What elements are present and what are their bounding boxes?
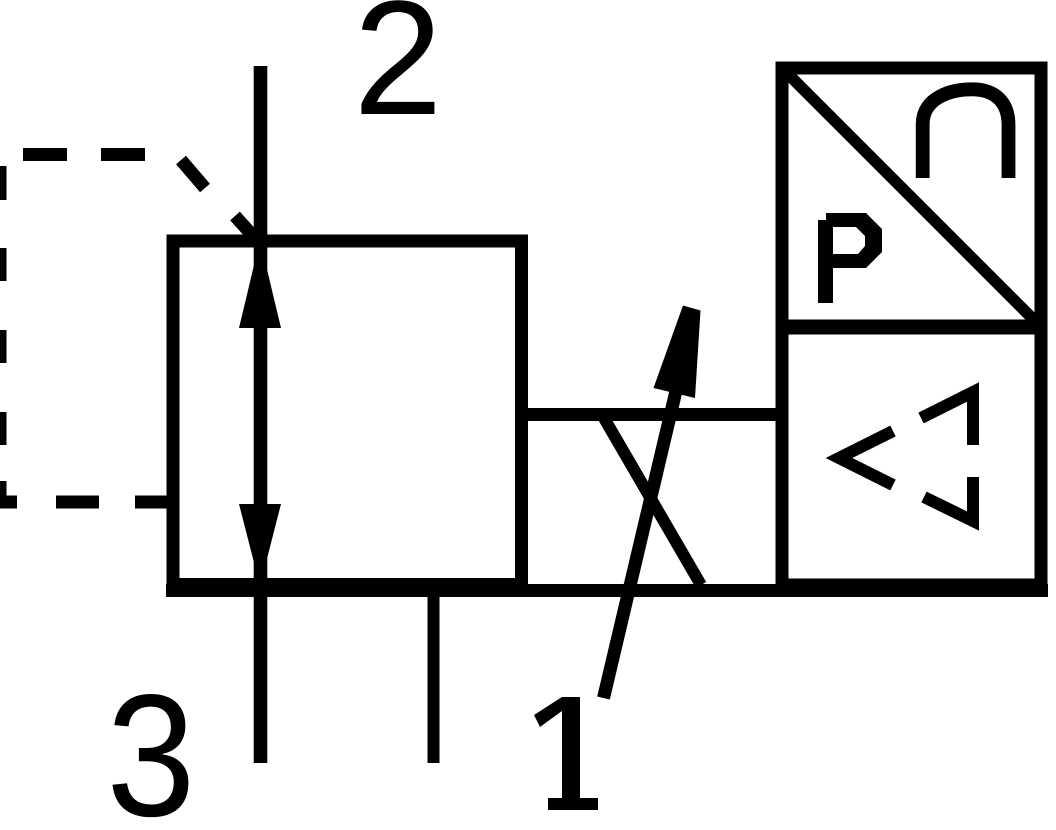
- svg-text:2: 2: [353, 0, 442, 149]
- svg-text:3: 3: [106, 659, 195, 830]
